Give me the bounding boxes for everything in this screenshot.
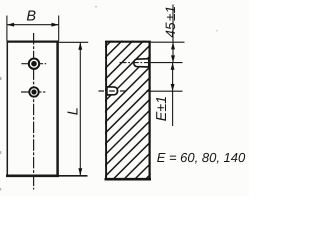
scan specks <box>0 77 1 80</box>
hole H1 centre line <box>21 63 46 65</box>
hole H1 <box>29 59 39 69</box>
dimension 45 top extension line <box>151 41 185 43</box>
upper slot S1 <box>134 59 149 67</box>
dimension L top extension line <box>59 41 88 43</box>
lower slot centre line <box>99 90 126 92</box>
section outline <box>105 41 152 180</box>
lower slot extension line <box>146 90 183 92</box>
dimension 45 line with leader above <box>172 5 174 63</box>
dimension L bottom extension line <box>59 175 88 177</box>
svg-text:L: L <box>66 107 82 115</box>
hole H2 <box>29 87 38 96</box>
upper slot extension line <box>151 62 183 64</box>
lower slot S2 <box>107 87 118 95</box>
hole H2 centre line <box>21 91 45 93</box>
dimension B extension lines <box>6 16 8 42</box>
svg-text:E±1: E±1 <box>154 96 170 121</box>
section view hatching <box>0 40 285 181</box>
front view plate outline <box>6 41 59 176</box>
dimension L line <box>79 43 81 176</box>
svg-text:B: B <box>26 9 36 25</box>
vertical centre line of plate <box>33 33 35 190</box>
upper slot centre line <box>120 62 153 64</box>
dimension B line <box>7 24 59 26</box>
dimension E line with tail below <box>172 63 174 126</box>
svg-text:45±1: 45±1 <box>163 6 178 38</box>
svg-text:E = 60, 80, 140: E = 60, 80, 140 <box>157 150 246 165</box>
